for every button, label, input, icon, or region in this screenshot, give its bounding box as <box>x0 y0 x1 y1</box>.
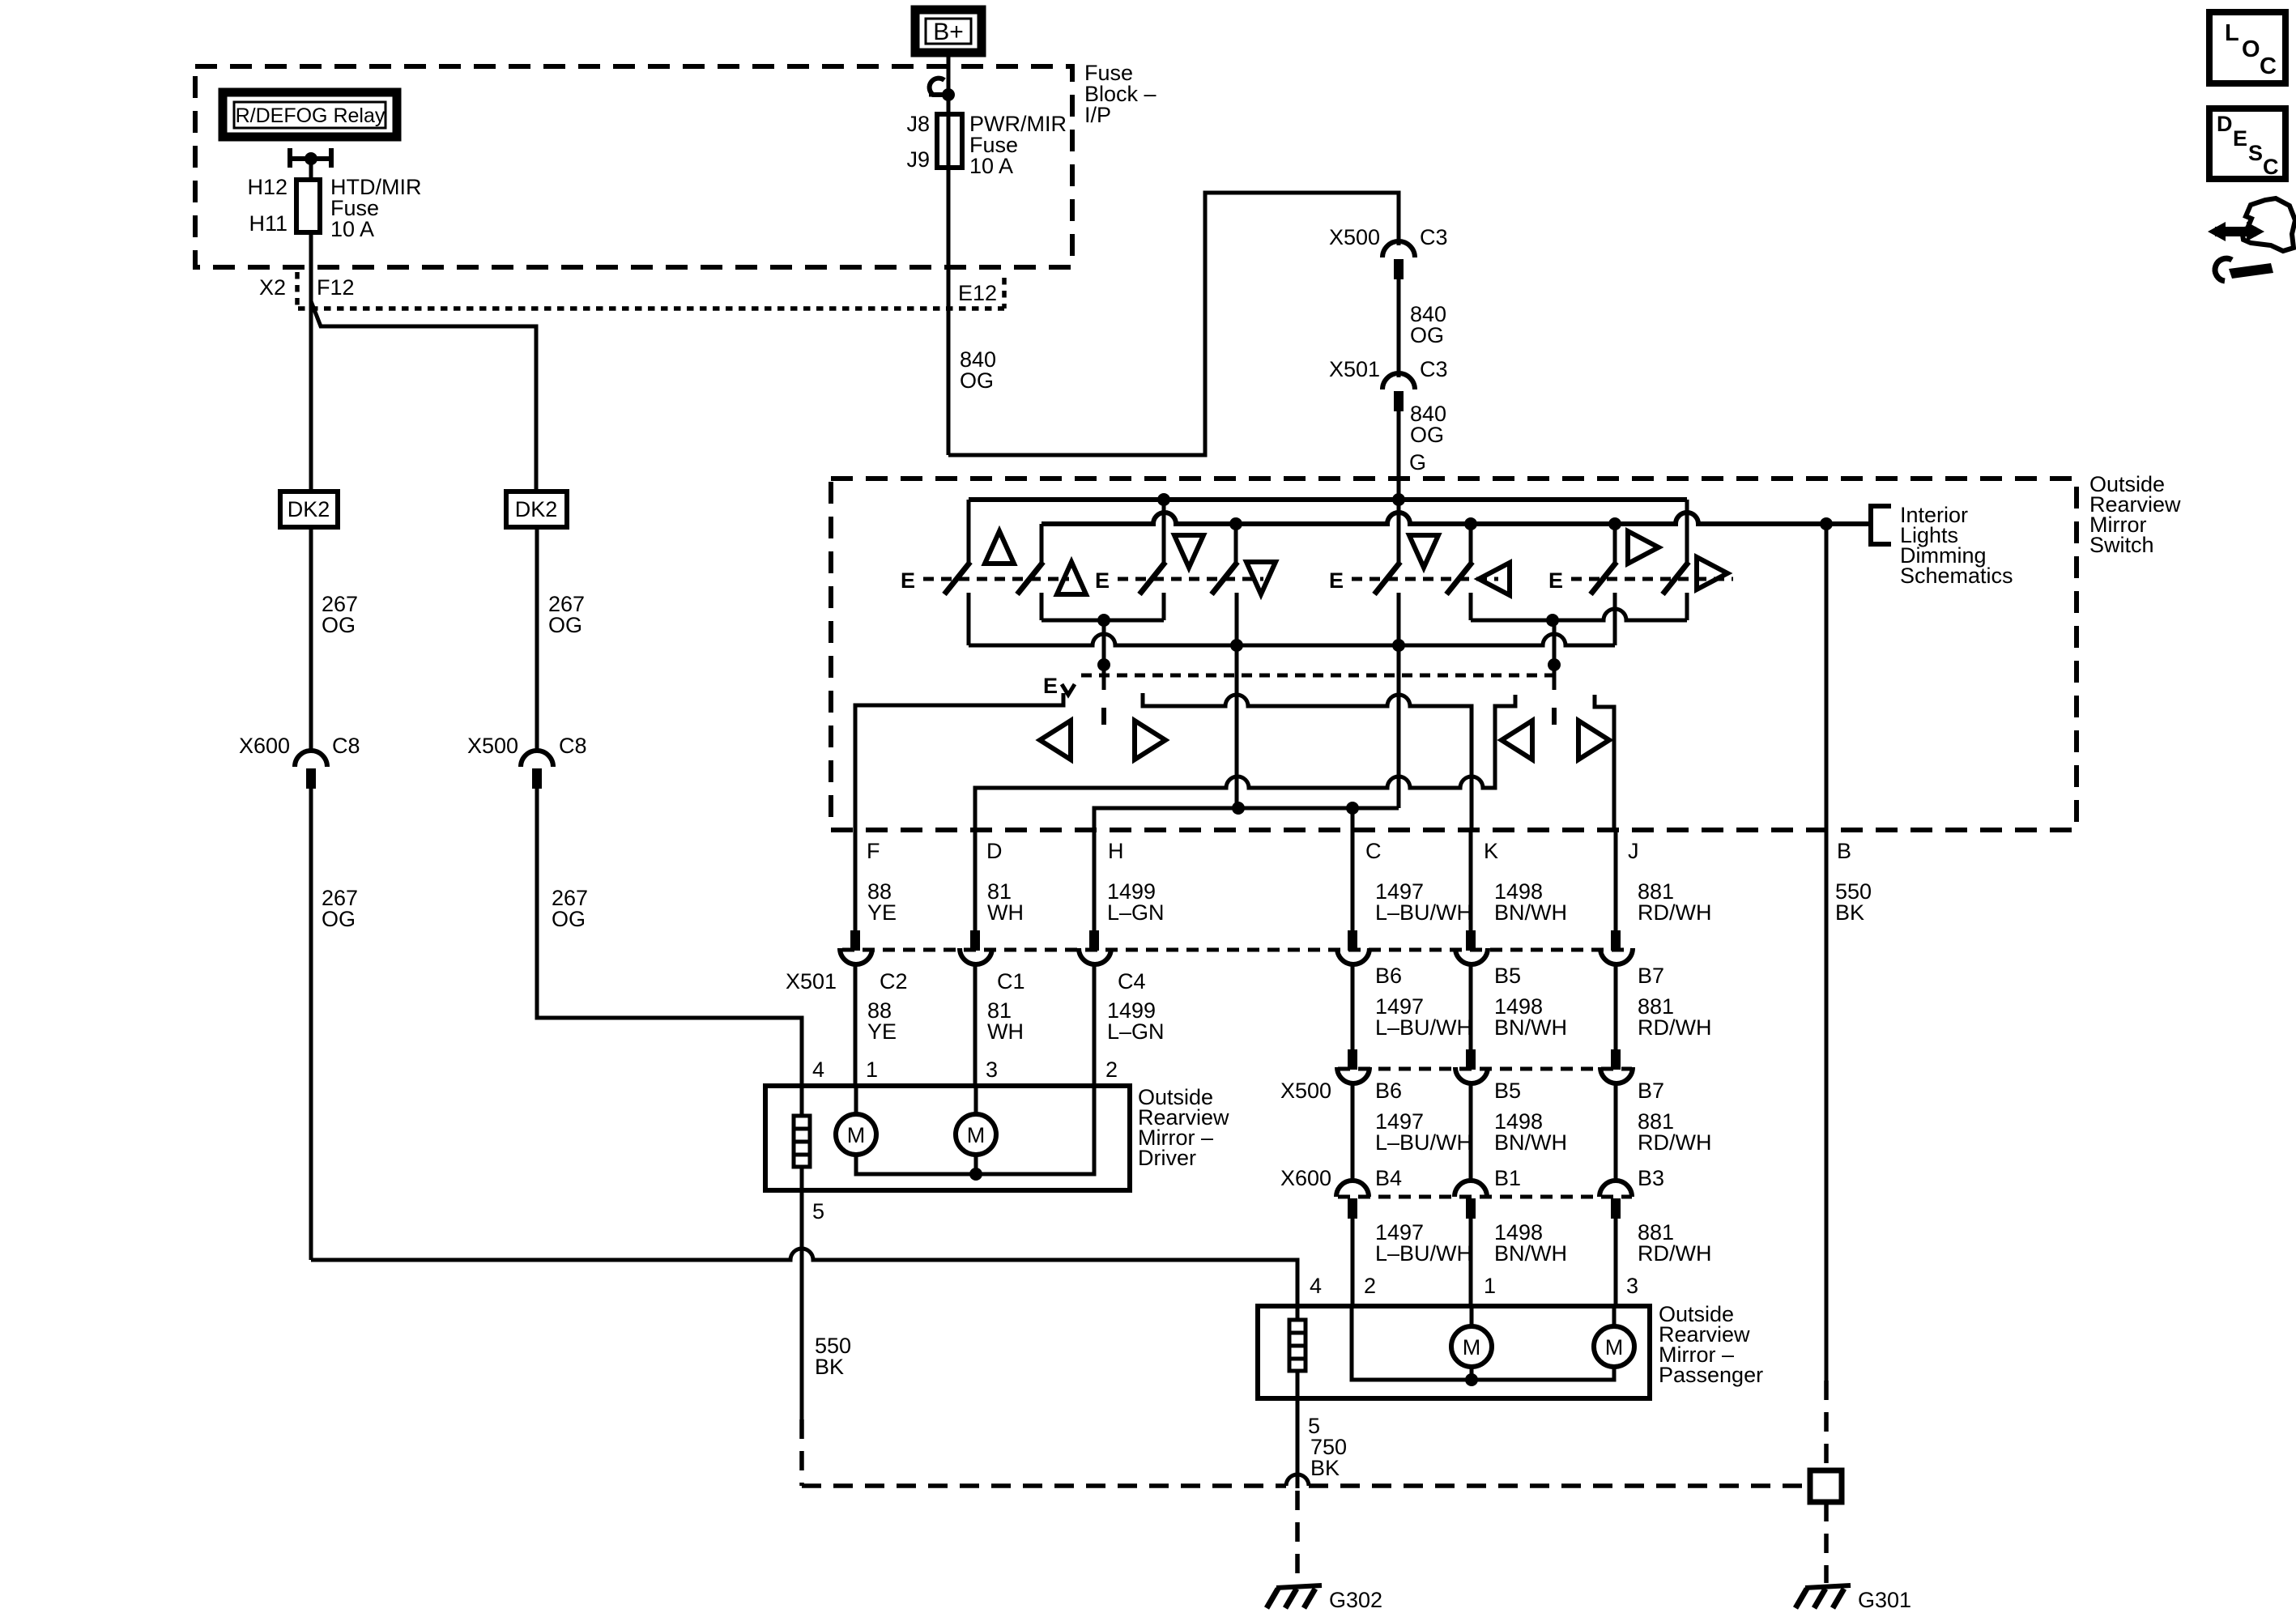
svg-text:I/P: I/P <box>1084 103 1111 127</box>
svg-text:BN/WH: BN/WH <box>1494 1241 1567 1266</box>
svg-text:E: E <box>1329 568 1344 593</box>
svg-text:B7: B7 <box>1638 964 1664 988</box>
svg-text:B: B <box>1837 839 1851 863</box>
svg-text:J9: J9 <box>906 147 930 172</box>
svg-text:E: E <box>1043 674 1058 698</box>
svg-text:F12: F12 <box>317 275 355 300</box>
svg-text:2: 2 <box>1364 1274 1376 1298</box>
svg-text:E: E <box>1095 568 1110 593</box>
svg-text:B6: B6 <box>1375 964 1402 988</box>
svg-text:M: M <box>1463 1335 1481 1360</box>
svg-text:L–GN: L–GN <box>1107 900 1165 925</box>
svg-text:L–BU/WH: L–BU/WH <box>1375 1241 1472 1266</box>
svg-text:B6: B6 <box>1375 1079 1402 1103</box>
svg-text:OG: OG <box>1410 323 1444 347</box>
svg-text:BN/WH: BN/WH <box>1494 1130 1567 1155</box>
svg-text:E: E <box>1548 568 1563 593</box>
svg-text:Passenger: Passenger <box>1659 1363 1763 1387</box>
svg-text:OG: OG <box>322 613 356 637</box>
svg-text:DK2: DK2 <box>288 497 330 521</box>
svg-text:C: C <box>2263 155 2279 179</box>
svg-text:C: C <box>1365 839 1382 863</box>
svg-text:D: D <box>2217 112 2233 136</box>
svg-text:4: 4 <box>1310 1274 1322 1298</box>
svg-text:H12: H12 <box>247 175 288 199</box>
svg-text:M: M <box>967 1123 986 1147</box>
svg-text:C3: C3 <box>1420 225 1448 249</box>
svg-text:Driver: Driver <box>1138 1146 1196 1170</box>
svg-text:R/DEFOG Relay: R/DEFOG Relay <box>236 104 386 127</box>
svg-text:YE: YE <box>867 900 897 925</box>
svg-text:1: 1 <box>1484 1274 1496 1298</box>
svg-text:Switch: Switch <box>2089 533 2154 557</box>
svg-text:OG: OG <box>322 907 356 931</box>
svg-text:RD/WH: RD/WH <box>1638 900 1711 925</box>
svg-text:BK: BK <box>1310 1456 1340 1480</box>
svg-text:BK: BK <box>1835 900 1864 925</box>
svg-text:OG: OG <box>552 907 586 931</box>
svg-text:E: E <box>901 568 915 593</box>
svg-text:2: 2 <box>1105 1057 1118 1082</box>
svg-text:C8: C8 <box>559 734 587 758</box>
svg-text:B+: B+ <box>933 19 964 45</box>
svg-text:X501: X501 <box>1329 357 1380 381</box>
svg-text:BN/WH: BN/WH <box>1494 1015 1567 1040</box>
svg-text:10 A: 10 A <box>330 217 374 241</box>
svg-text:X2: X2 <box>259 275 286 300</box>
svg-text:10 A: 10 A <box>969 154 1013 178</box>
svg-text:M: M <box>847 1123 866 1147</box>
svg-text:B4: B4 <box>1375 1166 1402 1190</box>
svg-text:G: G <box>1409 450 1426 474</box>
svg-text:G302: G302 <box>1329 1588 1382 1612</box>
svg-text:L: L <box>2225 20 2239 46</box>
svg-text:5: 5 <box>812 1199 824 1223</box>
svg-text:OG: OG <box>1410 423 1444 447</box>
svg-text:WH: WH <box>987 900 1024 925</box>
svg-text:X600: X600 <box>1280 1166 1331 1190</box>
svg-text:YE: YE <box>867 1019 897 1044</box>
svg-text:E: E <box>2233 126 2247 151</box>
svg-text:3: 3 <box>986 1057 998 1082</box>
svg-text:B3: B3 <box>1638 1166 1664 1190</box>
svg-text:L–BU/WH: L–BU/WH <box>1375 1130 1472 1155</box>
svg-text:B5: B5 <box>1494 964 1521 988</box>
svg-text:C3: C3 <box>1420 357 1448 381</box>
svg-text:L–GN: L–GN <box>1107 1019 1165 1044</box>
svg-text:L–BU/WH: L–BU/WH <box>1375 900 1472 925</box>
svg-text:4: 4 <box>812 1057 824 1082</box>
svg-text:L–BU/WH: L–BU/WH <box>1375 1015 1472 1040</box>
svg-text:RD/WH: RD/WH <box>1638 1130 1711 1155</box>
svg-text:3: 3 <box>1626 1274 1638 1298</box>
svg-text:X500: X500 <box>467 734 518 758</box>
svg-text:J8: J8 <box>906 112 930 136</box>
svg-text:G301: G301 <box>1858 1588 1911 1612</box>
svg-text:BK: BK <box>815 1355 844 1379</box>
svg-text:B5: B5 <box>1494 1079 1521 1103</box>
svg-text:H: H <box>1108 839 1124 863</box>
svg-text:OG: OG <box>548 613 582 637</box>
svg-text:C1: C1 <box>997 969 1025 994</box>
svg-text:C8: C8 <box>332 734 360 758</box>
svg-text:H11: H11 <box>249 211 288 236</box>
svg-text:X600: X600 <box>239 734 290 758</box>
svg-text:BN/WH: BN/WH <box>1494 900 1567 925</box>
svg-text:C4: C4 <box>1118 969 1146 994</box>
svg-text:F: F <box>867 839 880 863</box>
svg-text:X500: X500 <box>1280 1079 1331 1103</box>
svg-text:M: M <box>1605 1335 1624 1360</box>
svg-text:WH: WH <box>987 1019 1024 1044</box>
svg-text:X501: X501 <box>786 969 837 994</box>
svg-text:X500: X500 <box>1329 225 1380 249</box>
svg-text:D: D <box>986 839 1003 863</box>
svg-text:O: O <box>2242 36 2260 62</box>
svg-text:OG: OG <box>960 368 994 393</box>
svg-text:B1: B1 <box>1494 1166 1521 1190</box>
svg-text:K: K <box>1484 839 1498 863</box>
svg-text:J: J <box>1628 839 1639 863</box>
svg-text:S: S <box>2248 141 2263 165</box>
svg-text:E12: E12 <box>958 281 997 305</box>
svg-text:Schematics: Schematics <box>1900 564 2013 588</box>
svg-text:RD/WH: RD/WH <box>1638 1015 1711 1040</box>
svg-text:C2: C2 <box>880 969 908 994</box>
svg-text:1: 1 <box>866 1057 878 1082</box>
svg-text:C: C <box>2260 53 2277 79</box>
svg-text:DK2: DK2 <box>515 497 558 521</box>
svg-text:RD/WH: RD/WH <box>1638 1241 1711 1266</box>
svg-text:B7: B7 <box>1638 1079 1664 1103</box>
